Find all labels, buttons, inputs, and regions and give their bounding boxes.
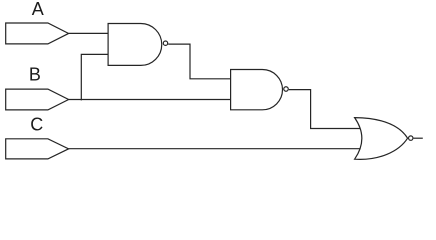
svg-text:B: B [29, 64, 41, 84]
svg-text:C: C [30, 114, 43, 134]
wire B to NAND U2 input 2 [69, 99, 231, 101]
NOR U3 output bubble [409, 136, 413, 140]
input port A [6, 23, 69, 44]
wire U2 output to NOR U3 input 1 [289, 90, 361, 129]
wire U1 output to NAND U2 input 1 [168, 44, 230, 79]
NAND U2 output bubble [284, 87, 289, 92]
NAND U1 output bubble [163, 41, 167, 45]
wire U3 output [414, 137, 423, 139]
wire C to NOR U3 input 2 [69, 148, 361, 150]
wire branch B to NAND U1 input 2 [81, 54, 108, 100]
NOR gate U3 body [355, 118, 408, 160]
input port C [6, 139, 69, 159]
input port B [6, 89, 69, 110]
svg-text:A: A [32, 0, 44, 19]
wire A to NAND U1 input 1 [69, 32, 109, 34]
NAND gate U2 body [231, 70, 283, 110]
NAND gate U1 body [108, 24, 162, 66]
